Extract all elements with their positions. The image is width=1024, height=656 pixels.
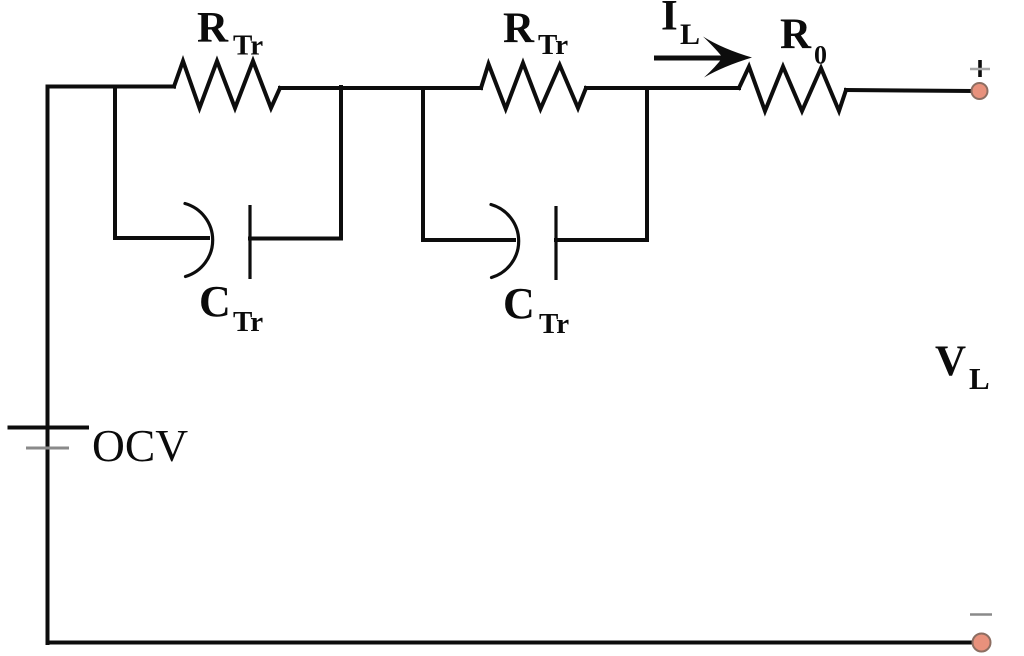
negative terminal minus sign <box>970 613 992 615</box>
wire bottom horizontal to negative terminal <box>48 641 974 645</box>
battery OCV short plate <box>26 447 69 450</box>
svg-text:C: C <box>199 277 231 326</box>
wire capacitor C_Tr1 left lead <box>115 236 208 240</box>
svg-text:L: L <box>969 361 990 396</box>
positive terminal plus sign horizontal stroke <box>970 68 990 70</box>
svg-text:C: C <box>503 279 535 328</box>
wire between resistor R_Tr2 and resistor R0 <box>586 86 739 90</box>
svg-text:Tr: Tr <box>233 30 263 62</box>
wire top-left horizontal from left vertical to resistor R_Tr1 <box>48 85 175 89</box>
resistor R_Tr (first, transient resistance) <box>174 61 280 108</box>
current arrow I_L head <box>703 37 752 78</box>
svg-text:R: R <box>197 5 229 52</box>
negative terminal node <box>973 634 991 652</box>
wire RC2 right vertical branch <box>645 88 649 240</box>
positive terminal plus sign vertical stroke <box>978 60 982 77</box>
wire RC1 right vertical branch <box>339 87 343 239</box>
svg-text:Tr: Tr <box>539 308 569 340</box>
positive terminal node <box>972 83 988 99</box>
wire RC1 left vertical branch <box>113 87 117 239</box>
capacitor C_Tr2 flat plate <box>554 206 557 280</box>
wire from resistor R0 to positive terminal <box>846 90 971 91</box>
svg-text:L: L <box>680 18 700 51</box>
wire left vertical (battery branch) <box>46 87 50 644</box>
svg-text:V: V <box>935 338 966 385</box>
wire capacitor C_Tr1 right lead <box>250 237 341 241</box>
capacitor C_Tr1 flat plate <box>248 205 251 279</box>
resistor R0 (ohmic resistance) <box>739 67 846 111</box>
current arrow I_L shaft <box>654 56 723 61</box>
svg-text:OCV: OCV <box>92 420 188 471</box>
svg-text:I: I <box>661 0 678 40</box>
svg-text:R: R <box>780 11 812 58</box>
wire capacitor C_Tr2 left lead <box>423 238 514 242</box>
svg-text:Tr: Tr <box>538 29 568 61</box>
svg-text:0: 0 <box>814 41 827 70</box>
battery OCV long plate <box>8 426 90 430</box>
wire RC2 left vertical branch <box>421 88 425 240</box>
wire capacitor C_Tr2 right lead <box>556 238 647 242</box>
svg-text:Tr: Tr <box>233 306 263 338</box>
capacitor C_Tr1 curved plate <box>185 204 213 277</box>
resistor R_Tr (second, transient resistance) <box>481 63 586 109</box>
capacitor C_Tr2 curved plate <box>491 205 519 278</box>
svg-text:R: R <box>503 5 535 52</box>
wire between resistor R_Tr1 and resistor R_Tr2 <box>280 86 481 90</box>
